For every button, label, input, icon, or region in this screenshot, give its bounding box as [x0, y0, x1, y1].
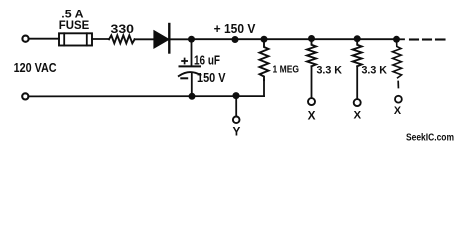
terminal X3 circle	[395, 96, 402, 103]
svg-text:X: X	[353, 109, 361, 121]
svg-text:330: 330	[111, 22, 135, 36]
bottom rail wire	[29, 95, 264, 97]
resistor R3 3.3K zigzag	[353, 39, 362, 67]
resistor R 330 zigzag	[109, 35, 135, 43]
wire 1 MEG bottom to rail	[263, 80, 265, 96]
wire fuse to resistor 330	[92, 38, 109, 40]
top rail wire	[192, 38, 397, 40]
resistor R4 (continuation) zigzag	[392, 39, 401, 78]
capacitor C1 positive plate	[180, 65, 201, 67]
wire R3 to X terminal	[356, 66, 358, 99]
top rail dashed continuation	[397, 38, 405, 40]
terminal Y circle	[233, 117, 240, 124]
capacitor C1 negative curved plate	[179, 72, 201, 76]
svg-text:SeekIC.com: SeekIC.com	[406, 133, 454, 144]
node Y takeoff	[233, 92, 240, 99]
resistor R1 1 MEG zigzag	[260, 39, 269, 80]
diode CR1 cathode bar	[168, 24, 170, 53]
fuse end cap right	[86, 33, 88, 45]
svg-text:X: X	[308, 108, 316, 122]
resistor R2 3.3K zigzag	[307, 39, 316, 67]
svg-text:16 uF: 16 uF	[194, 53, 220, 67]
svg-text:3.3 K: 3.3 K	[317, 65, 343, 77]
wire node to capacitor C1	[191, 39, 193, 66]
dashed wire R4 to X terminal	[397, 82, 399, 88]
diode CR1 anode triangle	[154, 31, 169, 48]
node at diode output	[188, 36, 195, 43]
svg-text:150 V: 150 V	[197, 71, 226, 85]
svg-text:FUSE: FUSE	[59, 19, 90, 32]
wire R2 to X terminal	[311, 66, 313, 98]
svg-text:3.3 K: 3.3 K	[362, 65, 388, 77]
node capacitor to bottom rail	[189, 93, 196, 100]
wire capacitor to bottom rail	[191, 73, 193, 96]
node top of 1 MEG	[261, 36, 268, 43]
svg-text:+ 150 V: + 150 V	[214, 21, 256, 36]
svg-text:Y: Y	[232, 125, 240, 139]
fuse end cap left	[63, 33, 65, 45]
fuse F1 body	[59, 33, 92, 45]
svg-text:X: X	[394, 105, 402, 117]
wire diode to node	[169, 38, 191, 40]
node top of last resistor	[393, 36, 400, 43]
svg-text:1 MEG: 1 MEG	[273, 64, 300, 75]
terminal X1 circle	[308, 98, 315, 105]
wire resistor to diode	[135, 38, 154, 40]
label capacitor polarity +	[181, 58, 188, 65]
input terminal bottom-left	[22, 93, 28, 99]
wire terminal to fuse	[29, 38, 59, 40]
wire node to Y terminal	[235, 96, 237, 116]
input terminal top-left	[22, 36, 28, 42]
svg-text:120 VAC: 120 VAC	[14, 61, 57, 75]
terminal X2 circle	[354, 99, 361, 106]
node top of second 3.3K	[354, 35, 361, 42]
node top of first 3.3K	[308, 35, 315, 42]
node +150V measurement point	[232, 36, 239, 43]
label capacitor polarity minus	[180, 77, 188, 79]
